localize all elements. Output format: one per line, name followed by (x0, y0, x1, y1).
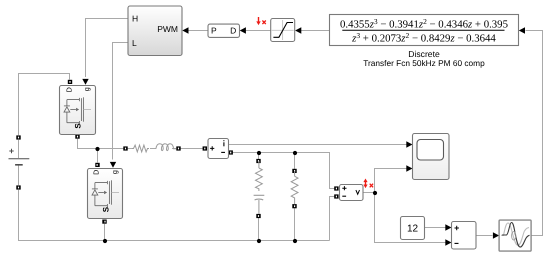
constant 12 (401, 217, 425, 240)
junction dot voltmeter output node (373, 191, 377, 195)
wire Q1 source to switch node (78, 139, 98, 149)
wire ammeter - to output node (233, 153, 335, 189)
svg-text:z3 + 0.2073z2 − 0.8429z − 0.36: z3 + 0.2073z2 − 0.8429z − 0.3644 (351, 31, 496, 45)
block saturation (271, 19, 295, 42)
resistor ESR (RC branch) (256, 161, 263, 191)
block D to P converter (208, 24, 240, 37)
wire saturation output to D-P converter (245, 30, 271, 32)
wire ZOH output up to transfer fcn input (526, 31, 543, 236)
wire V+ rail: source + up to Q1 drain (19, 74, 70, 136)
arrowhead into Q1 gate (82, 79, 88, 85)
arrowhead into ZOH input (493, 232, 499, 238)
block zero-order hold / sampler (499, 220, 531, 251)
port square ammeter minus (229, 150, 233, 154)
wire node up to scope input 2 (375, 169, 407, 193)
wire constant 12 to sum plus input (425, 227, 447, 229)
port square source plus (16, 135, 20, 139)
svg-text:D: D (91, 170, 100, 175)
port square load R top (292, 169, 296, 173)
resistor R series (RL branch) (132, 145, 149, 152)
scope block (413, 134, 450, 180)
port square Q1 source (75, 135, 79, 139)
wire source internal top (18, 140, 20, 158)
wire switch node to RL branch (98, 148, 124, 150)
sum block (452, 222, 477, 250)
wire output node down to RC branch (258, 153, 260, 160)
arrowhead into PWM block right edge (182, 27, 188, 33)
transistor Q1 MOSFET high side (60, 86, 96, 135)
block voltmeter voltage measurement (340, 185, 364, 201)
junction dot ground rail at RC branch (257, 239, 261, 243)
arrowhead into saturation right edge (295, 27, 301, 33)
port square voltmeter plus (334, 186, 338, 190)
junction dot switch node (95, 147, 99, 151)
svg-text:12: 12 (407, 224, 419, 235)
arrowhead into transfer fcn right edge (519, 27, 525, 33)
port square RC branch top (256, 159, 260, 163)
arrowhead into D-P converter right edge (240, 27, 246, 33)
svg-text:P: P (211, 26, 217, 36)
arrowhead into sum plus input (445, 224, 451, 230)
port square Q1 drain (68, 80, 72, 84)
svg-text:Transfer Fcn 50kHz PM 60 comp: Transfer Fcn 50kHz PM 60 comp (363, 58, 485, 68)
wire RC branch to ground rail (258, 218, 260, 241)
port square load R bottom (292, 204, 296, 208)
wire RL branch interior right (172, 148, 177, 150)
svg-text:S: S (101, 206, 110, 212)
svg-text:L: L (132, 38, 137, 48)
resistor R load (291, 171, 298, 204)
wire source internal bottom (18, 165, 20, 185)
port square source minus (16, 185, 20, 189)
port square ammeter plus (203, 146, 207, 150)
svg-text:g: g (110, 170, 119, 174)
svg-text:D: D (230, 26, 236, 36)
wire load R branch to ground rail (294, 208, 296, 240)
voltage source V1 DC (9, 149, 30, 165)
wire RL between R and L (150, 148, 156, 150)
svg-text:S: S (74, 123, 83, 129)
capacitor C output (RC branch) (254, 195, 265, 214)
junction dot output node at load R (293, 151, 297, 155)
wire sum output to ZOH block (476, 235, 493, 237)
wire PWM H output to Q1 gate (86, 19, 129, 78)
wire D-P converter output to PWM block (188, 30, 209, 32)
wire transfer fcn output to saturation (301, 30, 330, 32)
transistor Q2 MOSFET low side (88, 169, 123, 219)
wire RL branch interior left (128, 148, 133, 150)
port square Q2 source (102, 220, 106, 224)
inductor L series (RL branch) (156, 144, 177, 151)
port square RC branch bottom (256, 214, 260, 218)
red breakpoint marker up-down arrow at voltmeter output (363, 179, 367, 189)
red x mark at voltmeter output (370, 184, 373, 188)
junction dot Q2 source at ground rail (103, 239, 107, 243)
arrowhead into scope input 2 (406, 165, 412, 171)
subsystem PWM generator (128, 6, 182, 56)
port square RL branch right (176, 146, 180, 150)
wire node down to sum minus input (375, 193, 447, 243)
wire Q2 source to ground rail (104, 224, 106, 241)
wire PWM L output to Q2 gate (113, 43, 129, 160)
wire output node down to load R branch (294, 153, 296, 169)
junction dot ground rail at load R (293, 239, 297, 243)
block ammeter current measurement (208, 139, 229, 159)
block discrete transfer fcn compensator (330, 15, 519, 46)
wire switch node down to Q2 drain (97, 149, 99, 163)
wire source - to ground rail (19, 190, 330, 241)
red x mark near saturation (262, 21, 265, 25)
arrowhead into scope input 1 (406, 141, 412, 147)
arrowhead into Q2 gate (110, 162, 116, 168)
port square voltmeter minus (334, 194, 338, 198)
svg-text:D: D (64, 87, 73, 92)
port square Q2 drain (95, 163, 99, 167)
wire ammeter i output to scope input 1 (229, 144, 407, 146)
wire voltmeter v output to node (363, 192, 375, 194)
red breakpoint marker down-arrow near saturation (256, 17, 260, 25)
svg-text:PWM: PWM (157, 24, 178, 34)
arrowhead into sum minus input (445, 239, 451, 245)
junction dot output node at RC branch (257, 151, 261, 155)
svg-text:H: H (132, 13, 138, 23)
wire RL branch to ammeter + (181, 148, 204, 150)
svg-text:g: g (82, 87, 91, 91)
port square RL branch left (123, 146, 127, 150)
wire ground rail to voltmeter minus (330, 197, 335, 241)
